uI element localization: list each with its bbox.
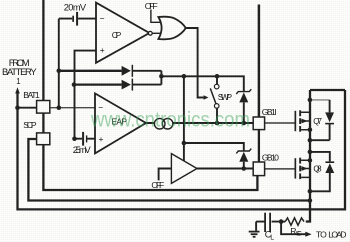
svg-text:BAT1: BAT1 bbox=[23, 90, 40, 100]
svg-text:Q7: Q7 bbox=[313, 117, 322, 126]
svg-text:−: − bbox=[100, 13, 105, 23]
svg-text:OFF: OFF bbox=[145, 1, 158, 11]
svg-text:25mV: 25mV bbox=[73, 145, 92, 155]
svg-text:L: L bbox=[270, 234, 274, 241]
svg-text:SC: SC bbox=[296, 230, 302, 237]
svg-text:LOAD: LOAD bbox=[328, 230, 346, 240]
svg-text:GB10: GB10 bbox=[262, 152, 279, 162]
svg-text:www.cntronics.com: www.cntronics.com bbox=[90, 108, 250, 132]
svg-text:TO: TO bbox=[316, 230, 327, 240]
svg-text:SWP: SWP bbox=[218, 92, 233, 102]
svg-text:CP: CP bbox=[112, 30, 122, 40]
svg-text:Q8: Q8 bbox=[313, 165, 322, 174]
svg-text:+: + bbox=[100, 45, 105, 55]
svg-text:GB1I: GB1I bbox=[262, 107, 277, 117]
svg-text:SCP: SCP bbox=[23, 120, 37, 130]
svg-text:BATTERY: BATTERY bbox=[2, 66, 37, 77]
svg-text:20mV: 20mV bbox=[64, 2, 87, 12]
svg-text:+: + bbox=[99, 134, 104, 144]
svg-text:OFF: OFF bbox=[151, 180, 164, 190]
svg-text:1: 1 bbox=[16, 77, 20, 86]
